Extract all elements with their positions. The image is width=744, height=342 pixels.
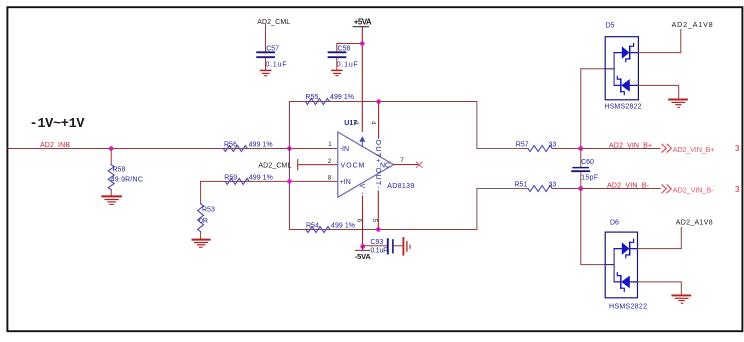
wire -OUT bottom path to R51	[477, 189, 528, 230]
svg-text:0R: 0R	[199, 218, 208, 225]
svg-text:-5VA: -5VA	[355, 252, 372, 261]
wire R57 to output port	[552, 148, 660, 150]
op-amp V+ pin arrow inside body	[360, 137, 364, 146]
wire R53 bottom lead to ground	[200, 232, 202, 239]
wire AD2_INB input row from border to op-amp pin 1	[8, 148, 338, 150]
svg-text:4: 4	[369, 121, 376, 125]
svg-text:R59: R59	[224, 174, 237, 181]
svg-text:AD2_INB: AD2_INB	[40, 142, 70, 149]
no-connect X on pin 7	[416, 162, 422, 168]
diode D6 lower (to GND)	[614, 273, 637, 291]
wire D6 anode to ground	[638, 282, 682, 295]
wire D5 cathode to AD2_A1V8	[638, 30, 680, 53]
svg-text:499 1%: 499 1%	[331, 222, 355, 229]
svg-text:R53: R53	[202, 207, 215, 214]
svg-text:499 1%: 499 1%	[249, 174, 273, 181]
ground under R58	[102, 196, 121, 204]
wire C58 to ground	[336, 58, 338, 70]
svg-text:8: 8	[328, 175, 332, 182]
resistor R58 vertical	[108, 165, 114, 190]
svg-text:0.1uF: 0.1uF	[266, 61, 287, 68]
svg-text:6: 6	[355, 219, 362, 223]
svg-text:HSMS2822: HSMS2822	[609, 304, 647, 311]
svg-text:AD2_CML: AD2_CML	[258, 162, 291, 169]
svg-text:AD2_VIN_B-: AD2_VIN_B-	[673, 185, 715, 194]
D6 internal common lead	[605, 249, 614, 282]
ground at D6	[672, 295, 690, 303]
wire C93 right lead	[394, 245, 403, 247]
svg-text:D5: D5	[606, 23, 615, 30]
node junction +IN / feedback	[287, 179, 292, 184]
wire R59 row to op-amp pin 8	[201, 180, 338, 182]
wire +5VA rail down to V+ pin 3	[361, 27, 363, 132]
ground under C57	[261, 70, 271, 75]
label OUT- rotated inside body	[374, 168, 381, 190]
svg-text:AD2_CML: AD2_CML	[257, 19, 290, 26]
power port -5VA	[356, 246, 370, 250]
op-amp U1 body triangle	[338, 132, 394, 197]
diode D5 upper (to AD2_A1V8)	[614, 43, 638, 61]
svg-text:33: 33	[549, 182, 557, 189]
diode pack D5 box	[605, 37, 638, 100]
resistor R56	[223, 146, 247, 152]
node junction AD2_VIN_B- / C60 / D6	[578, 186, 583, 191]
node junction R55 / +OUT	[376, 99, 381, 104]
ground under C58	[332, 70, 342, 75]
wire C58 top lead	[337, 44, 363, 52]
svg-text:+IN: +IN	[340, 179, 351, 186]
svg-text:-1V~+1V: -1V~+1V	[30, 117, 86, 132]
svg-text:3: 3	[735, 144, 740, 153]
svg-text:HSMS2822: HSMS2822	[605, 103, 642, 110]
svg-text:15pF: 15pF	[581, 174, 598, 181]
wire R53 top lead	[200, 181, 202, 203]
svg-text:AD2_A1V8: AD2_A1V8	[672, 22, 713, 29]
svg-text:D6: D6	[610, 220, 619, 227]
pin number 5 rotated	[371, 219, 378, 223]
wire R51 to output port	[552, 188, 660, 190]
resistor R53 vertical	[198, 204, 204, 232]
svg-text:AD2_VIN_B+: AD2_VIN_B+	[673, 145, 716, 154]
svg-text:49.9R/NC: 49.9R/NC	[111, 176, 143, 183]
diode pack D6 box	[605, 232, 637, 298]
label OUT+ rotated inside body	[374, 140, 381, 163]
node junction +5VA / C58	[360, 41, 365, 46]
wire R54 feedback bottom row	[289, 229, 477, 231]
svg-text:1: 1	[328, 141, 332, 148]
output port AD2_VIN_B-	[662, 185, 671, 193]
wire feedback vertical R55-R54	[288, 102, 290, 230]
resistor R59	[225, 178, 249, 184]
op-amp +OUT pin 4 vertical wire	[378, 102, 380, 139]
resistor R54	[306, 227, 330, 233]
svg-text:AD2_VIN_B+: AD2_VIN_B+	[609, 142, 652, 149]
wire pin 2 stub with net tie bar	[298, 160, 338, 171]
svg-text:+5VA: +5VA	[354, 18, 372, 27]
node junction R54 / -OUT	[376, 227, 381, 232]
diode D6 upper (to AD2_A1V8)	[614, 239, 637, 257]
svg-text:OUT-: OUT-	[374, 168, 381, 190]
ground rotated at C93	[403, 238, 410, 255]
svg-text:C57: C57	[266, 45, 279, 52]
svg-text:AD8139: AD8139	[387, 183, 414, 190]
wire R55 feedback row	[289, 101, 477, 103]
svg-text:5: 5	[371, 219, 378, 223]
op-amp V- pin 6 vertical wire to -5VA	[362, 196, 364, 246]
svg-text:R55: R55	[305, 94, 318, 101]
D5 internal common lead	[605, 53, 614, 86]
wire C57 to ground	[265, 58, 267, 70]
capacitor C58	[329, 52, 346, 57]
wire R58 top lead	[110, 149, 112, 165]
node junction -5VA / C93	[360, 244, 365, 249]
label V- rotated inside body	[358, 184, 365, 196]
wire +OUT top path to R57	[477, 102, 528, 149]
wire D5 anode to ground	[638, 85, 678, 98]
svg-text:499 1%: 499 1%	[330, 94, 354, 101]
ground at D5	[669, 100, 687, 108]
svg-text:C58: C58	[338, 45, 351, 52]
svg-text:0.1uF: 0.1uF	[337, 61, 358, 68]
wire op-amp pin 7 NC stub	[394, 164, 420, 166]
wire junction to D5	[581, 69, 605, 149]
svg-text:-IN: -IN	[340, 146, 349, 153]
svg-text:33: 33	[549, 141, 557, 148]
node B junction -IN / feedback	[287, 146, 292, 151]
svg-text:0.1uF: 0.1uF	[370, 248, 387, 255]
resistor R55	[305, 99, 329, 105]
op-amp -OUT pin 5 vertical wire	[377, 191, 379, 230]
wire C93 left lead	[363, 245, 388, 247]
svg-text:R58: R58	[113, 166, 126, 173]
wire junction to D6	[581, 189, 605, 265]
resistor R57	[528, 146, 552, 152]
wire AD2_CML to C57	[265, 25, 267, 52]
wire C60 bottom lead	[580, 172, 582, 189]
capacitor C93	[388, 239, 393, 253]
resistor R51	[528, 186, 552, 192]
svg-text:499 1%: 499 1%	[249, 141, 273, 148]
pin number 6 rotated	[355, 219, 362, 223]
ground under R53	[193, 240, 210, 248]
svg-text:7: 7	[400, 157, 404, 164]
output port AD2_VIN_B+	[662, 144, 671, 152]
svg-text:C60: C60	[581, 159, 594, 166]
wire R58 bottom lead to ground	[110, 190, 112, 196]
svg-text:OUT+: OUT+	[374, 140, 381, 163]
svg-text:VOCM: VOCM	[341, 163, 365, 170]
svg-text:AD2_A1V8: AD2_A1V8	[676, 220, 713, 227]
svg-text:AD2_VIN_B-: AD2_VIN_B-	[607, 183, 650, 190]
pin number 4 rotated	[369, 121, 376, 125]
wire D6 cathode to AD2_A1V8	[638, 228, 682, 249]
svg-text:C93: C93	[370, 239, 383, 246]
svg-text:R51: R51	[515, 182, 528, 189]
node junction AD2_VIN_B+ / C60 / D5	[578, 146, 583, 151]
svg-text:NC: NC	[380, 163, 390, 170]
svg-text:3: 3	[352, 121, 359, 125]
pin number 3 rotated	[352, 121, 359, 125]
svg-text:R57: R57	[516, 141, 529, 148]
node A junction AD2_INB / R58	[109, 146, 114, 151]
capacitor C57	[257, 52, 274, 57]
svg-text:3: 3	[735, 185, 740, 194]
diode D5 lower (to GND)	[614, 76, 638, 94]
svg-text:R54: R54	[306, 222, 319, 229]
svg-text:R56: R56	[224, 141, 237, 148]
capacitor C60	[580, 149, 582, 168]
svg-text:2: 2	[328, 158, 332, 165]
